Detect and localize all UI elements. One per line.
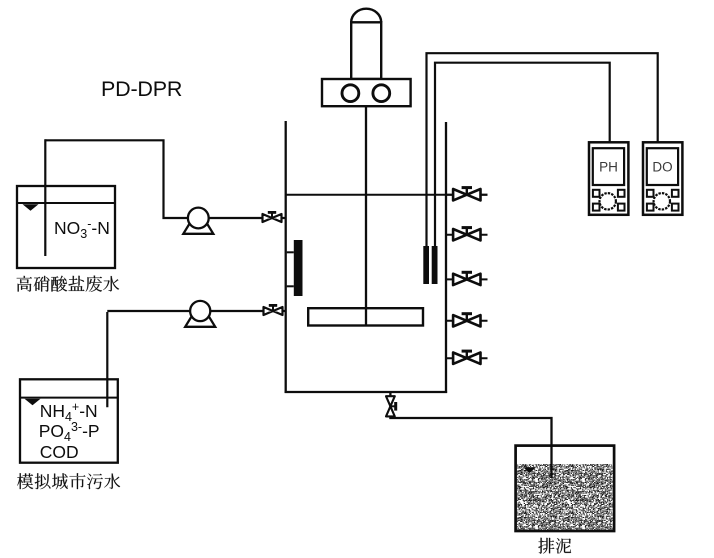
tank T1 suction pipe — [44, 139, 46, 256]
sampling valve 2 — [453, 229, 480, 240]
stirrer shaft — [365, 106, 367, 324]
heater bracket upper — [287, 251, 294, 253]
label pai ni — [538, 538, 571, 554]
motor base circle right — [373, 85, 390, 102]
sampling valve 4 — [453, 315, 480, 326]
drain pipe from reactor bottom to sludge tank — [390, 392, 551, 478]
DO meter button — [647, 204, 654, 211]
motor body — [351, 22, 381, 79]
drain valve (vertical) — [386, 396, 395, 416]
sampling valve 1 — [453, 189, 480, 200]
PH meter button — [618, 204, 625, 211]
DO meter body — [643, 142, 682, 215]
sampling valve 5 — [453, 353, 480, 364]
wire pipe P1 to valve — [208, 217, 286, 219]
PH meter knob — [600, 193, 616, 209]
wire pipe P2 to valve — [210, 310, 286, 312]
sampling port line 3 — [446, 278, 488, 280]
tank T1 (high-nitrate wastewater) — [17, 186, 115, 268]
sludge fill (speckled) — [517, 464, 613, 530]
pipe from T2 to pump P2 — [107, 310, 189, 312]
DO meter screen — [647, 148, 678, 185]
sampling port line 5 — [446, 357, 488, 359]
sampling port line 2 — [446, 234, 488, 236]
DO probe cable (outer) — [427, 53, 658, 246]
label gao xiao suan yan fei shui — [17, 276, 119, 292]
sludge tank inlet pipe segment — [550, 445, 552, 478]
inlet valve on pipe 1 — [263, 214, 282, 222]
reactor right wall — [445, 122, 447, 393]
reactor bottom — [285, 391, 448, 393]
motor base circle left — [342, 85, 359, 102]
sampling port line 4 — [446, 320, 488, 322]
pump P2 — [185, 317, 215, 327]
motor dome — [351, 9, 381, 23]
PH probe cable (inner) — [435, 63, 610, 246]
label mo ni cheng shi wu shui — [17, 473, 120, 489]
tank T2 suction pipe — [106, 312, 108, 407]
reactor liquid level line to sampling valve 1 — [286, 194, 488, 196]
PH meter button — [593, 204, 600, 211]
PH meter screen — [593, 148, 624, 185]
tank T1 water surface symbol — [23, 204, 39, 211]
DO meter button — [672, 204, 679, 211]
PH meter button — [593, 190, 600, 197]
tank T2 water level line — [20, 397, 118, 399]
PH meter button — [618, 190, 625, 197]
sampling port line 1 — [446, 194, 488, 196]
probe body right — [432, 246, 438, 284]
tank T1 water level line — [17, 202, 115, 204]
tank T2 (simulated municipal sewage) — [20, 379, 118, 462]
inlet valve on pipe 2 — [264, 307, 283, 315]
pipe from T1: up/over/down to pump P1 — [45, 140, 187, 218]
DO meter button — [672, 190, 679, 197]
probe body left — [423, 246, 429, 284]
stirrer paddle — [308, 308, 423, 325]
motor base box — [322, 79, 411, 106]
heater bracket lower — [287, 285, 294, 287]
svg-text:PD-DPR: PD-DPR — [101, 77, 182, 101]
svg-text:COD: COD — [40, 442, 79, 462]
tank T2 water surface symbol — [25, 399, 41, 406]
DO meter knob — [654, 193, 670, 209]
svg-text:PH: PH — [599, 160, 618, 175]
stirrer shaft tip inside paddle — [365, 308, 367, 326]
DO meter button — [647, 190, 654, 197]
sludge surface symbol — [523, 467, 536, 473]
reactor left wall — [285, 121, 287, 393]
sampling valve 3 — [453, 274, 480, 285]
sludge tank — [516, 446, 615, 531]
PH meter body — [589, 142, 628, 215]
pump P1 — [183, 224, 213, 234]
svg-text:DO: DO — [652, 160, 672, 175]
heater bar on left wall — [294, 240, 303, 296]
